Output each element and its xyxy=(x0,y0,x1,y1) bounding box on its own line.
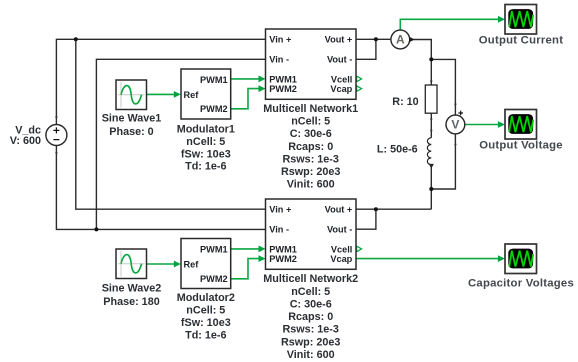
svg-text:V: V xyxy=(451,118,459,132)
svg-text:Vin -: Vin - xyxy=(269,225,289,235)
svg-text:PWM2: PWM2 xyxy=(200,104,228,114)
svg-text:Vin -: Vin - xyxy=(269,55,289,65)
svg-text:Sine Wave1: Sine Wave1 xyxy=(102,113,162,125)
svg-text:Phase: 180: Phase: 180 xyxy=(103,296,159,308)
svg-text:L: 50e-6: L: 50e-6 xyxy=(377,144,418,156)
svg-text:Vcell: Vcell xyxy=(331,244,352,254)
svg-text:nCell: 5: nCell: 5 xyxy=(291,116,330,128)
svg-text:Rcaps: 0: Rcaps: 0 xyxy=(288,141,333,153)
svg-text:Vin +: Vin + xyxy=(269,35,291,45)
svg-text:Ref: Ref xyxy=(184,259,200,269)
svg-text:Vcell: Vcell xyxy=(331,74,352,84)
svg-text:fSw: 10e3: fSw: 10e3 xyxy=(181,317,231,329)
svg-text:Output Voltage: Output Voltage xyxy=(479,140,563,152)
svg-text:C: 30e-6: C: 30e-6 xyxy=(290,299,332,311)
svg-text:Modulator2: Modulator2 xyxy=(177,292,235,304)
svg-text:Ref: Ref xyxy=(184,90,200,100)
svg-text:fSw: 10e3: fSw: 10e3 xyxy=(181,148,231,160)
svg-text:Vcap: Vcap xyxy=(330,254,352,264)
svg-text:Vout -: Vout - xyxy=(327,225,352,235)
svg-text:PWM1: PWM1 xyxy=(269,244,297,254)
svg-text:A: A xyxy=(396,33,405,47)
svg-text:PWM2: PWM2 xyxy=(200,274,228,284)
svg-text:nCell: 5: nCell: 5 xyxy=(186,305,225,317)
svg-text:Vinit: 600: Vinit: 600 xyxy=(287,179,335,191)
svg-text:nCell: 5: nCell: 5 xyxy=(291,286,330,298)
svg-text:C: 30e-6: C: 30e-6 xyxy=(290,128,332,140)
svg-text:Vout +: Vout + xyxy=(325,205,353,215)
svg-text:Output Current: Output Current xyxy=(479,35,563,47)
svg-text:Rswp: 20e3: Rswp: 20e3 xyxy=(281,336,340,348)
svg-text:Modulator1: Modulator1 xyxy=(177,124,235,136)
svg-text:Multicell Network1: Multicell Network1 xyxy=(263,103,358,115)
svg-text:Phase: 0: Phase: 0 xyxy=(109,126,153,138)
svg-text:Multicell Network2: Multicell Network2 xyxy=(263,273,358,285)
svg-text:nCell: 5: nCell: 5 xyxy=(186,136,225,148)
svg-text:PWM1: PWM1 xyxy=(200,75,228,85)
svg-text:Rswp: 20e3: Rswp: 20e3 xyxy=(281,166,340,178)
svg-text:PWM1: PWM1 xyxy=(269,74,297,84)
svg-text:V: 600: V: 600 xyxy=(10,135,41,147)
svg-text:Sine Wave2: Sine Wave2 xyxy=(102,283,162,295)
svg-text:Vout +: Vout + xyxy=(325,35,353,45)
svg-text:PWM2: PWM2 xyxy=(269,84,297,94)
svg-text:R: 10: R: 10 xyxy=(392,96,418,108)
svg-text:Vinit: 600: Vinit: 600 xyxy=(287,349,335,361)
svg-text:Rcaps: 0: Rcaps: 0 xyxy=(288,311,333,323)
svg-text:Rsws: 1e-3: Rsws: 1e-3 xyxy=(282,324,338,336)
svg-text:Td: 1e-6: Td: 1e-6 xyxy=(185,161,226,173)
svg-text:Vin +: Vin + xyxy=(269,205,291,215)
svg-text:Vout -: Vout - xyxy=(327,55,352,65)
svg-text:Td: 1e-6: Td: 1e-6 xyxy=(185,329,226,341)
svg-text:Capacitor Voltages: Capacitor Voltages xyxy=(468,278,574,290)
svg-text:PWM2: PWM2 xyxy=(269,254,297,264)
svg-text:Rsws: 1e-3: Rsws: 1e-3 xyxy=(282,153,338,165)
svg-text:PWM1: PWM1 xyxy=(200,244,228,254)
svg-text:Vcap: Vcap xyxy=(330,84,352,94)
